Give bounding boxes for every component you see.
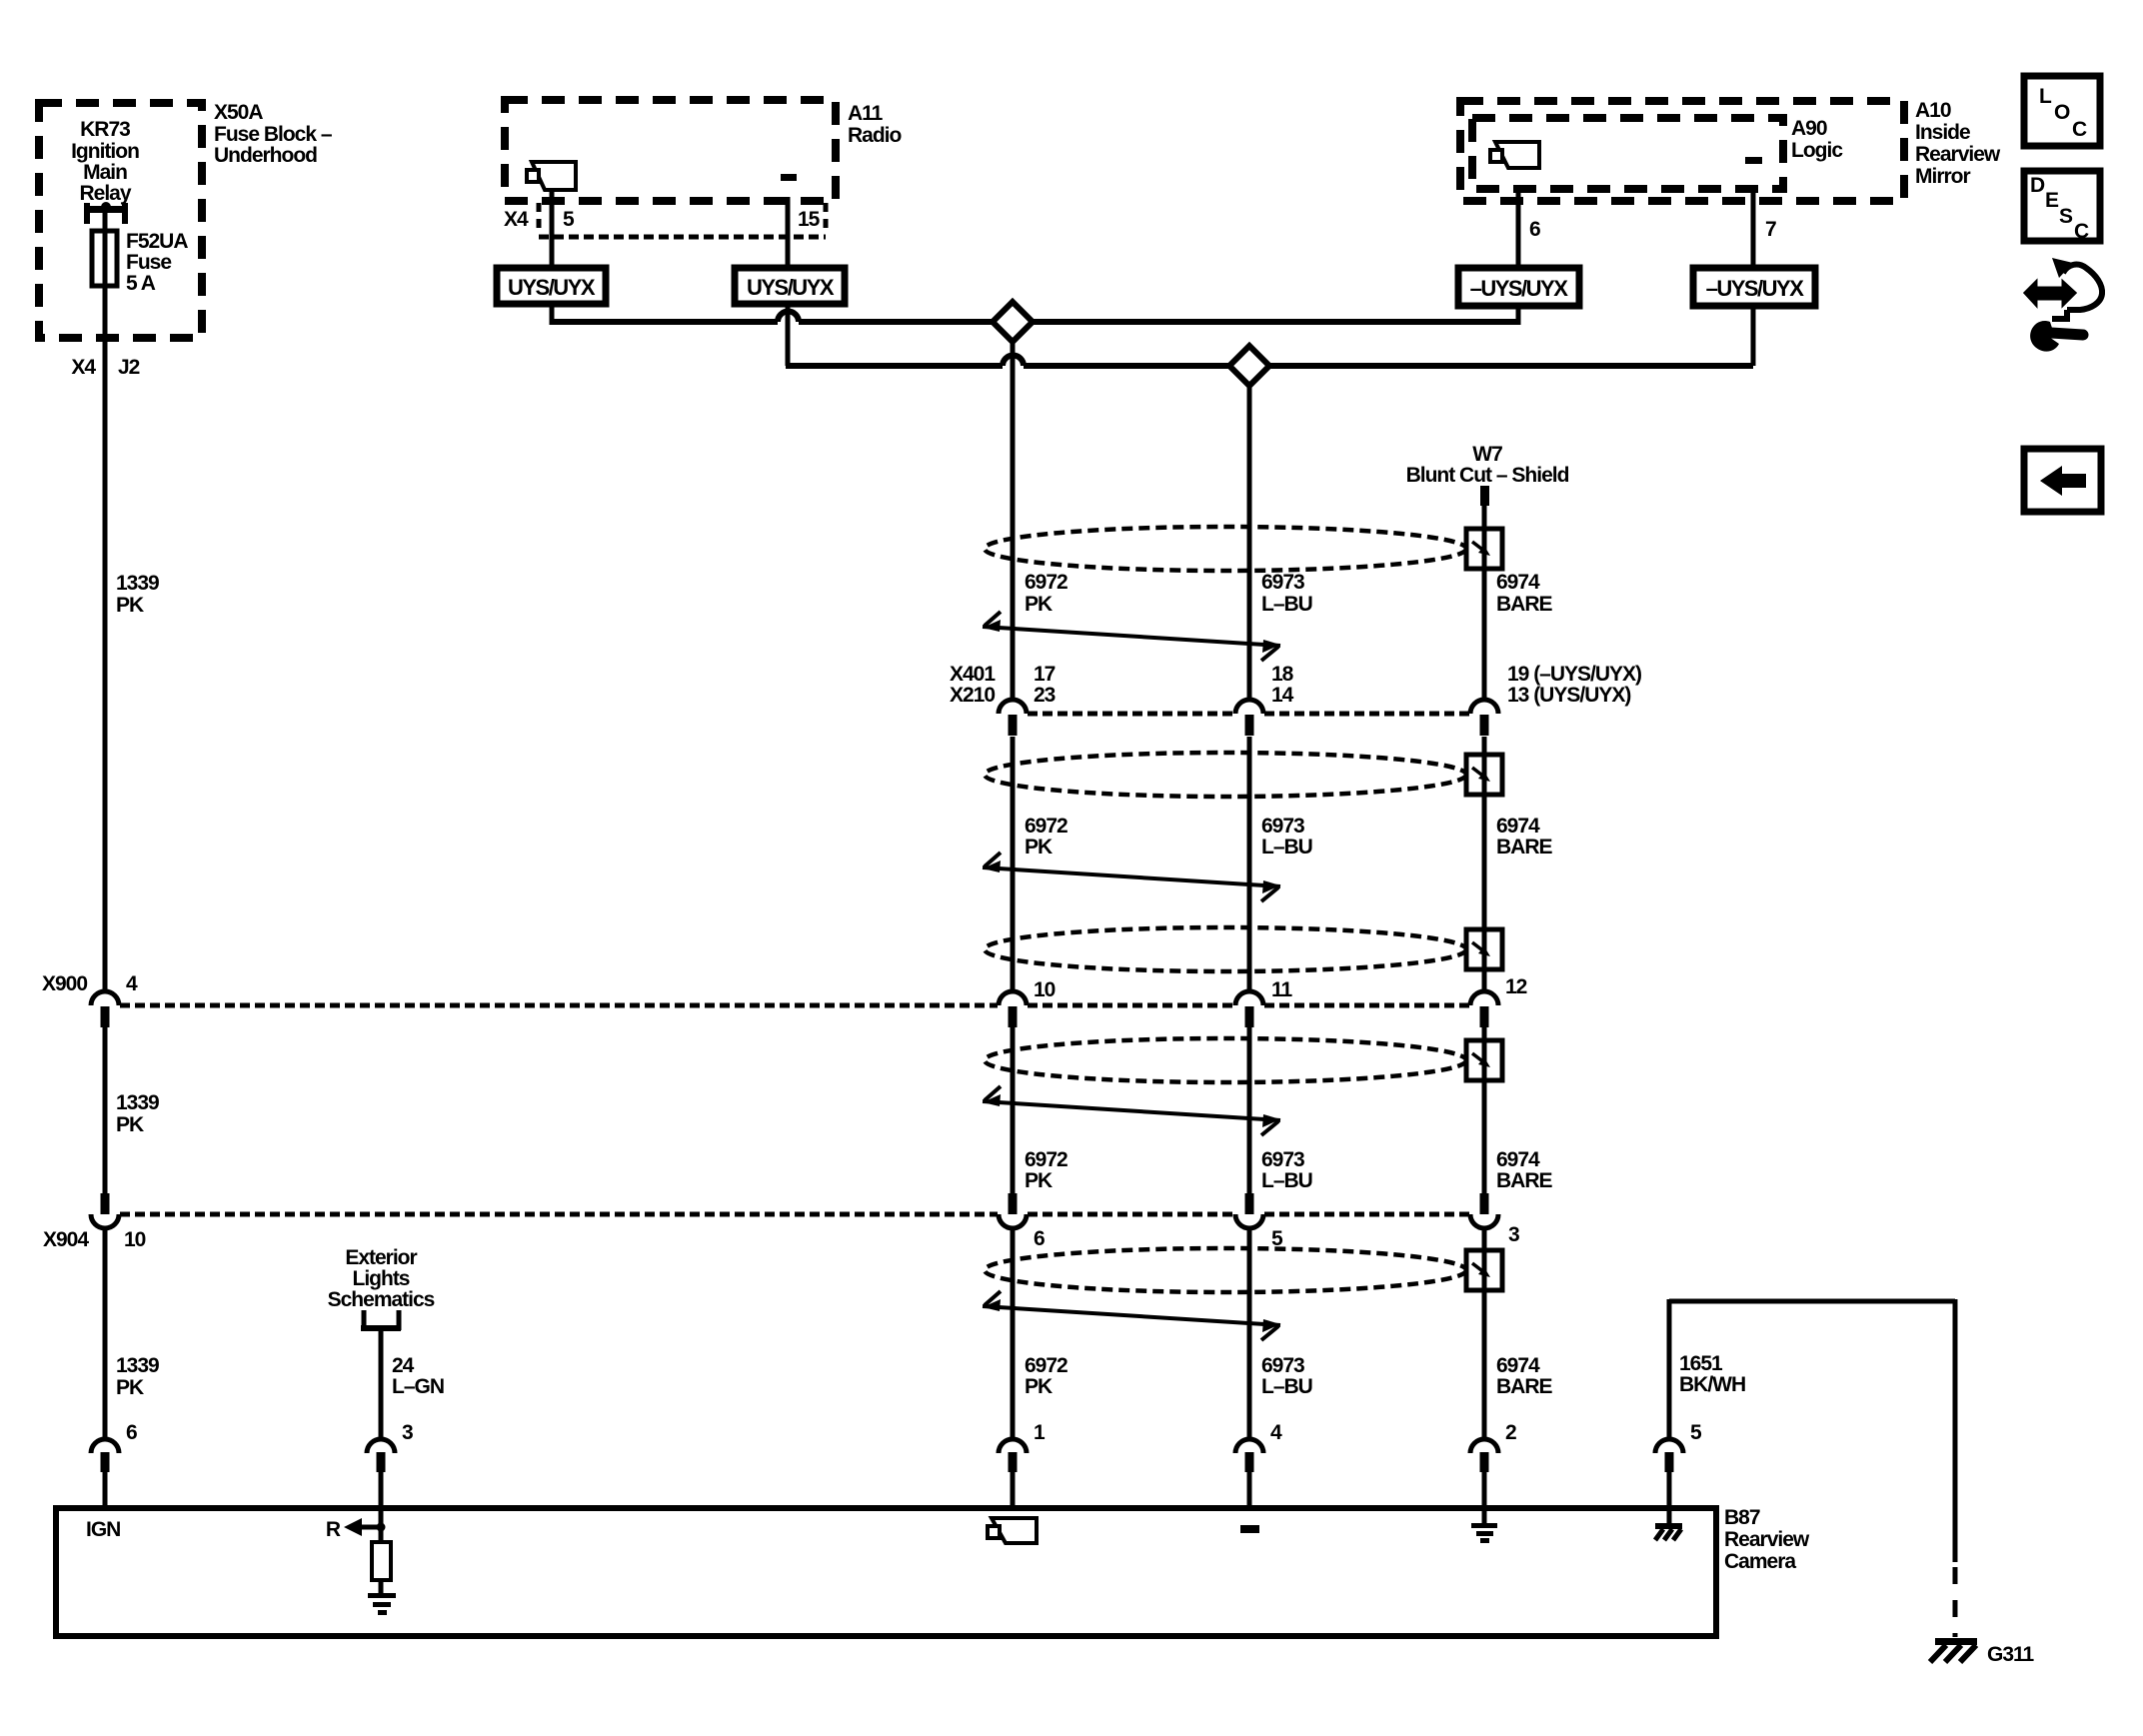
svg-text:X210: X210 <box>950 684 995 707</box>
svg-text:L–BU: L–BU <box>1261 836 1312 859</box>
svg-text:5: 5 <box>1690 1421 1702 1444</box>
fuse F52UA <box>92 230 188 295</box>
wire radio pin 5 <box>550 190 555 270</box>
svg-text:4: 4 <box>1270 1421 1282 1444</box>
svg-text:IGN: IGN <box>86 1518 120 1541</box>
svg-text:5: 5 <box>563 208 575 231</box>
wire label 6974 BARE row 1 <box>1496 571 1552 616</box>
svg-text:6972: 6972 <box>1025 571 1068 594</box>
svg-text:5: 5 <box>1271 1227 1283 1250</box>
svg-text:6973: 6973 <box>1261 1148 1304 1171</box>
ground G311 <box>1930 1638 2035 1666</box>
svg-text:2: 2 <box>1505 1421 1516 1444</box>
camera terminal pin 6 <box>91 1421 137 1509</box>
fuse block label X50A <box>214 101 333 167</box>
svg-text:6973: 6973 <box>1261 1354 1304 1377</box>
svg-text:E: E <box>2045 189 2059 212</box>
radio A11 dashed box <box>505 100 902 201</box>
svg-text:BARE: BARE <box>1496 836 1552 859</box>
X904 terminal pin 5 <box>1235 1193 1263 1228</box>
minus pin symbol in radio <box>781 174 797 181</box>
wire 1651 BK/WH horizontal run <box>1669 1299 1955 1439</box>
camera symbol in B87 <box>992 1518 1037 1543</box>
camera terminal pin 2 <box>1470 1421 1516 1472</box>
wire from relay to fuse <box>103 211 108 233</box>
svg-text:1339: 1339 <box>116 1354 159 1377</box>
svg-text:6974: 6974 <box>1496 1354 1540 1377</box>
svg-text:O: O <box>2054 101 2070 124</box>
wire to G311 solid <box>1953 1299 1958 1562</box>
camera terminal pin 3 <box>367 1421 413 1509</box>
svg-text:6974: 6974 <box>1496 1148 1540 1171</box>
shield termination square row 3 <box>1466 929 1502 969</box>
svg-text:Logic: Logic <box>1791 139 1843 162</box>
svg-text:4: 4 <box>126 972 138 995</box>
connector row X900 <box>42 972 1527 1005</box>
svg-text:B87: B87 <box>1724 1506 1760 1529</box>
wire 24 L-GN vertical <box>379 1328 384 1439</box>
svg-text:F52UA: F52UA <box>126 230 188 253</box>
svg-text:–UYS/UYX: –UYS/UYX <box>1706 276 1805 301</box>
shield ellipse row 1 <box>985 527 1466 571</box>
svg-text:23: 23 <box>1034 684 1056 707</box>
connector row X904 <box>43 1214 1519 1251</box>
shield termination square row 2 <box>1466 755 1502 795</box>
shield ellipse row 4 <box>985 1038 1466 1082</box>
wire 6972 PK vertical <box>1011 342 1016 1509</box>
svg-text:19 (–UYS/UYX): 19 (–UYS/UYX) <box>1507 663 1641 686</box>
DESC icon box <box>2024 171 2100 243</box>
svg-text:Fuse: Fuse <box>126 251 171 274</box>
svg-text:Blunt Cut – Shield: Blunt Cut – Shield <box>1406 464 1569 487</box>
wire hop over pin15 wire <box>778 312 799 323</box>
inside rearview mirror A10 dashed box <box>1460 99 2001 201</box>
svg-text:X4: X4 <box>71 356 96 379</box>
X904 terminal pin 3 <box>1470 1193 1498 1228</box>
svg-text:A11: A11 <box>848 102 884 125</box>
wire label 6974 BARE row 3 <box>1496 1148 1552 1192</box>
svg-text:L–BU: L–BU <box>1261 1375 1312 1398</box>
wire label 6973 L-BU row 1 <box>1261 571 1312 616</box>
svg-text:1: 1 <box>1034 1421 1046 1444</box>
minus pin symbol in B87 <box>1240 1525 1259 1533</box>
X904 terminal pin 10 <box>91 1027 119 1439</box>
wire label 6974 BARE row 4 <box>1496 1354 1552 1398</box>
svg-text:Schematics: Schematics <box>328 1288 435 1311</box>
connector row X401/X210 <box>950 663 1641 714</box>
X900 terminal pin 4 <box>91 991 119 1027</box>
svg-text:6974: 6974 <box>1496 815 1540 838</box>
wire hop over diamond wire <box>1003 356 1024 367</box>
svg-text:15: 15 <box>798 208 821 231</box>
chassis ground pin 5 inside B87 <box>1655 1509 1682 1540</box>
svg-text:L–GN: L–GN <box>392 1375 444 1398</box>
wire label 24 L-GN <box>392 1354 444 1398</box>
connector X4 strip under radio <box>504 203 826 237</box>
LOC icon box <box>2024 76 2100 146</box>
svg-text:6973: 6973 <box>1261 571 1304 594</box>
svg-text:Ignition: Ignition <box>71 140 139 163</box>
shield ellipse row 5 <box>985 1248 1466 1292</box>
svg-text:PK: PK <box>1025 1169 1053 1192</box>
svg-text:6972: 6972 <box>1025 1354 1068 1377</box>
svg-text:PK: PK <box>116 1376 144 1399</box>
svg-text:Rearview: Rearview <box>1724 1528 1810 1551</box>
shield termination square row 4 <box>1466 1040 1502 1080</box>
svg-text:11: 11 <box>1271 978 1293 1001</box>
svg-text:Inside: Inside <box>1915 121 1970 144</box>
svg-text:PK: PK <box>116 594 144 617</box>
bus wire lower -UYS/UYX <box>786 304 1753 366</box>
rearview camera B87 box <box>56 1508 1716 1636</box>
svg-text:PK: PK <box>1025 1375 1053 1398</box>
svg-text:J2: J2 <box>118 356 140 379</box>
svg-text:X900: X900 <box>42 972 87 995</box>
svg-text:12: 12 <box>1505 975 1527 998</box>
svg-text:Underhood: Underhood <box>214 144 317 167</box>
X900 terminal pin 10 <box>999 991 1027 1027</box>
wire label 1339 PK middle <box>116 1091 159 1136</box>
logic A90 dashed box <box>1472 117 1843 189</box>
svg-text:X50A: X50A <box>214 101 263 124</box>
svg-text:Radio: Radio <box>848 124 902 147</box>
X900 terminal pin 11 <box>1235 991 1263 1027</box>
svg-text:1339: 1339 <box>116 572 159 595</box>
svg-text:Lights: Lights <box>353 1267 410 1290</box>
wire label 6973 L-BU row 4 <box>1261 1354 1312 1398</box>
relay KR73 contact symbol <box>84 202 128 224</box>
svg-text:UYS/UYX: UYS/UYX <box>508 275 596 300</box>
W7 blunt cut shield label <box>1406 443 1569 487</box>
svg-text:6972: 6972 <box>1025 815 1068 838</box>
wire to G311 dashed <box>1953 1567 1958 1637</box>
svg-text:24: 24 <box>392 1354 415 1377</box>
svg-text:3: 3 <box>1508 1223 1519 1246</box>
wire label 6972 PK row 3 <box>1025 1148 1068 1192</box>
exterior lights schematics reference <box>328 1246 435 1311</box>
svg-text:14: 14 <box>1271 684 1294 707</box>
twisted pair arrow 1 <box>983 612 1280 661</box>
svg-text:X4: X4 <box>504 208 529 231</box>
wire label 6973 L-BU row 3 <box>1261 1148 1312 1192</box>
twisted pair arrow 2 <box>983 853 1280 901</box>
svg-text:BARE: BARE <box>1496 1169 1552 1192</box>
camera terminal pin 1 <box>999 1421 1046 1472</box>
wire label 1339 PK upper <box>116 572 159 617</box>
svg-text:BARE: BARE <box>1496 1375 1552 1398</box>
UYS/UYX box pin5 <box>497 268 606 304</box>
connector repair wrench icon <box>2025 258 2102 352</box>
svg-text:18: 18 <box>1271 663 1294 686</box>
-UYS/UYX box pin7 <box>1693 268 1815 306</box>
svg-text:5 A: 5 A <box>126 272 156 295</box>
signal ground pin 2 inside B87 <box>1471 1509 1497 1543</box>
svg-text:S: S <box>2059 205 2073 228</box>
shield termination square row 1 <box>1466 529 1502 569</box>
wire radio pin 15 <box>786 197 791 270</box>
svg-text:6: 6 <box>1034 1227 1045 1250</box>
X904 terminal pin 6 <box>999 1193 1027 1228</box>
wire mirror pin 7 <box>1753 189 1776 270</box>
-UYS/UYX box pin6 <box>1458 268 1579 306</box>
svg-text:UYS/UYX: UYS/UYX <box>747 275 835 300</box>
svg-text:6: 6 <box>1529 218 1540 241</box>
svg-text:–UYS/UYX: –UYS/UYX <box>1470 276 1569 301</box>
svg-text:Relay: Relay <box>79 182 131 205</box>
camera symbol in mirror <box>1495 142 1539 168</box>
svg-text:X904: X904 <box>43 1228 89 1251</box>
wire label 6973 L-BU row 2 <box>1261 815 1312 859</box>
W7 blunt cut stub <box>1480 486 1489 506</box>
svg-text:6972: 6972 <box>1025 1148 1068 1171</box>
svg-text:10: 10 <box>124 1228 146 1251</box>
svg-text:PK: PK <box>1025 836 1053 859</box>
svg-text:13 (UYS/UYX): 13 (UYS/UYX) <box>1507 684 1630 707</box>
R pin with arrow <box>326 1518 386 1541</box>
splice diamond upper <box>993 302 1033 342</box>
back arrow icon box <box>2024 449 2101 512</box>
fuse block X50A dashed box <box>39 103 202 338</box>
off-page connector bracket <box>361 1310 401 1330</box>
svg-text:PK: PK <box>116 1113 144 1136</box>
resistor inside camera <box>372 1509 391 1595</box>
svg-text:Mirror: Mirror <box>1915 165 1971 188</box>
svg-text:17: 17 <box>1034 663 1056 686</box>
svg-text:Rearview: Rearview <box>1915 143 2001 166</box>
svg-text:Fuse Block –: Fuse Block – <box>214 123 333 146</box>
svg-text:G311: G311 <box>1987 1643 2035 1666</box>
wire label 1651 BK/WH <box>1679 1352 1745 1396</box>
signal ground under resistor <box>368 1593 396 1615</box>
X401 terminal pin 18 <box>1235 700 1263 736</box>
X401 terminal pin 17 <box>999 700 1027 736</box>
svg-text:1339: 1339 <box>116 1091 159 1114</box>
B87 label <box>1724 1506 1810 1573</box>
svg-text:D: D <box>2030 174 2045 197</box>
svg-text:C: C <box>2074 220 2089 243</box>
svg-text:A90: A90 <box>1791 117 1827 140</box>
X900 terminal pin 12 <box>1470 991 1498 1027</box>
twisted pair arrow 4 <box>983 1291 1280 1340</box>
connector X4 / J2 labels under fuse block <box>71 356 139 379</box>
svg-text:L–BU: L–BU <box>1261 593 1312 616</box>
shield ellipse row 2 <box>985 753 1466 797</box>
svg-text:Main: Main <box>83 161 127 184</box>
wire 6974 BARE vertical <box>1482 504 1487 1509</box>
svg-text:W7: W7 <box>1472 443 1502 466</box>
wire label 6974 BARE row 2 <box>1496 815 1552 859</box>
wire 6973 L-BU vertical <box>1247 386 1252 1509</box>
shield ellipse row 3 <box>985 927 1466 971</box>
shield termination square row 5 <box>1466 1250 1502 1290</box>
camera symbol in radio <box>532 162 576 190</box>
wire 1339 PK from fuse to X900 <box>103 286 108 991</box>
svg-text:7: 7 <box>1765 218 1776 241</box>
svg-text:C: C <box>2072 118 2087 141</box>
svg-text:Camera: Camera <box>1724 1550 1796 1573</box>
svg-text:6: 6 <box>126 1421 137 1444</box>
svg-text:A10: A10 <box>1915 99 1951 122</box>
wire label 6972 PK row 4 <box>1025 1354 1068 1398</box>
wire mirror pin 6 <box>1518 189 1540 270</box>
svg-text:3: 3 <box>402 1421 413 1444</box>
svg-text:X401: X401 <box>950 663 996 686</box>
X401 terminal pin 19 <box>1470 700 1498 736</box>
svg-text:6974: 6974 <box>1496 571 1540 594</box>
svg-text:BK/WH: BK/WH <box>1679 1373 1745 1396</box>
wire label 1339 PK lower <box>116 1354 159 1399</box>
camera terminal pin 5 <box>1655 1421 1702 1509</box>
svg-text:Exterior: Exterior <box>345 1246 417 1269</box>
minus pin symbol in mirror <box>1745 157 1762 164</box>
svg-text:KR73: KR73 <box>80 118 130 141</box>
svg-text:PK: PK <box>1025 593 1053 616</box>
svg-text:6973: 6973 <box>1261 815 1304 838</box>
bus wire upper UYS/UYX <box>552 304 1518 325</box>
svg-text:1651: 1651 <box>1679 1352 1723 1375</box>
camera terminal pin 4 <box>1235 1421 1282 1472</box>
wire label 6972 PK row 1 <box>1025 571 1068 616</box>
svg-text:10: 10 <box>1034 978 1056 1001</box>
svg-text:R: R <box>326 1518 341 1541</box>
svg-text:L–BU: L–BU <box>1261 1169 1312 1192</box>
svg-text:L: L <box>2039 85 2052 108</box>
wire label 6972 PK row 2 <box>1025 815 1068 859</box>
twisted pair arrow 3 <box>983 1086 1280 1135</box>
UYS/UYX box pin15 <box>735 268 845 304</box>
svg-text:BARE: BARE <box>1496 593 1552 616</box>
splice diamond lower <box>1229 346 1269 386</box>
